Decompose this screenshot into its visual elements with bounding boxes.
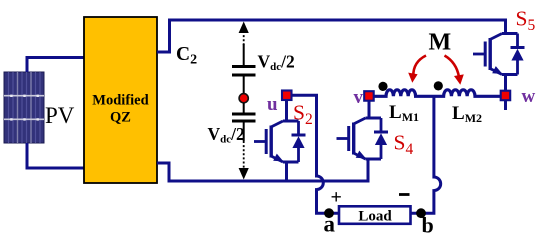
wire PV top to QZ — [27, 58, 84, 73]
label minus — [399, 193, 410, 196]
inductor LM1 and LM2 winding — [374, 90, 500, 97]
wire u square down to S2 collector — [285, 101, 288, 122]
Modified QZ block — [84, 17, 157, 183]
polarity dot LM1 — [378, 82, 387, 91]
node v square — [364, 91, 374, 101]
DC-link dimension arrow bottom — [243, 141, 245, 168]
midpoint node red dot — [239, 94, 248, 103]
node w square — [501, 91, 511, 101]
IGBT S5 — [473, 34, 525, 75]
svg-text:LM1: LM1 — [389, 102, 419, 124]
wire v square down to S4 collector — [368, 101, 371, 118]
svg-text:S2: S2 — [293, 101, 313, 129]
svg-text:LM2: LM2 — [452, 103, 482, 125]
svg-text:M: M — [429, 30, 452, 56]
node u square — [282, 91, 292, 101]
svg-text:v: v — [354, 87, 364, 108]
svg-text:Vdc/2: Vdc/2 — [208, 124, 245, 146]
polarity dot LM2 — [434, 81, 443, 90]
svg-text:Load: Load — [358, 209, 392, 225]
node b dot — [416, 208, 426, 218]
svg-text:u: u — [267, 94, 278, 115]
wire u to load branch (hops over bottom rail) — [292, 95, 339, 213]
mutual coupling arrow right — [445, 56, 464, 85]
load box — [339, 206, 411, 224]
DC-link dimension arrow top — [239, 22, 249, 34]
wire S2 emitter to bottom rail — [285, 162, 288, 181]
svg-text:b: b — [422, 213, 434, 237]
stub below w square — [504, 101, 507, 110]
svg-text:a: a — [324, 212, 336, 237]
capacitor Vdc/2 lower — [232, 103, 256, 141]
wire centre tap down to node b (hops) — [410, 96, 441, 213]
PV panel — [4, 72, 44, 143]
svg-text:S4: S4 — [394, 131, 414, 159]
mutual coupling arrow left — [408, 56, 426, 83]
wire QZ bottom-right to bottom rail to S4 emitter — [157, 159, 368, 181]
svg-text:w: w — [522, 86, 536, 107]
wire QZ top-right to top rail to S5 collector — [157, 20, 506, 52]
wire PV bottom to QZ — [27, 143, 84, 168]
svg-text:Vdc/2: Vdc/2 — [258, 52, 295, 74]
capacitor Vdc/2 upper — [232, 44, 256, 94]
node a dot — [324, 208, 334, 218]
wire S5 emitter to w square — [504, 75, 507, 91]
svg-text:Modified: Modified — [92, 93, 148, 109]
svg-text:+: + — [331, 187, 342, 209]
IGBT S4 — [337, 118, 389, 159]
svg-text:S5: S5 — [516, 7, 536, 35]
IGBT S2 — [254, 121, 306, 162]
svg-text:C2: C2 — [176, 44, 197, 68]
svg-text:QZ: QZ — [110, 110, 131, 126]
svg-text:PV: PV — [45, 103, 75, 128]
